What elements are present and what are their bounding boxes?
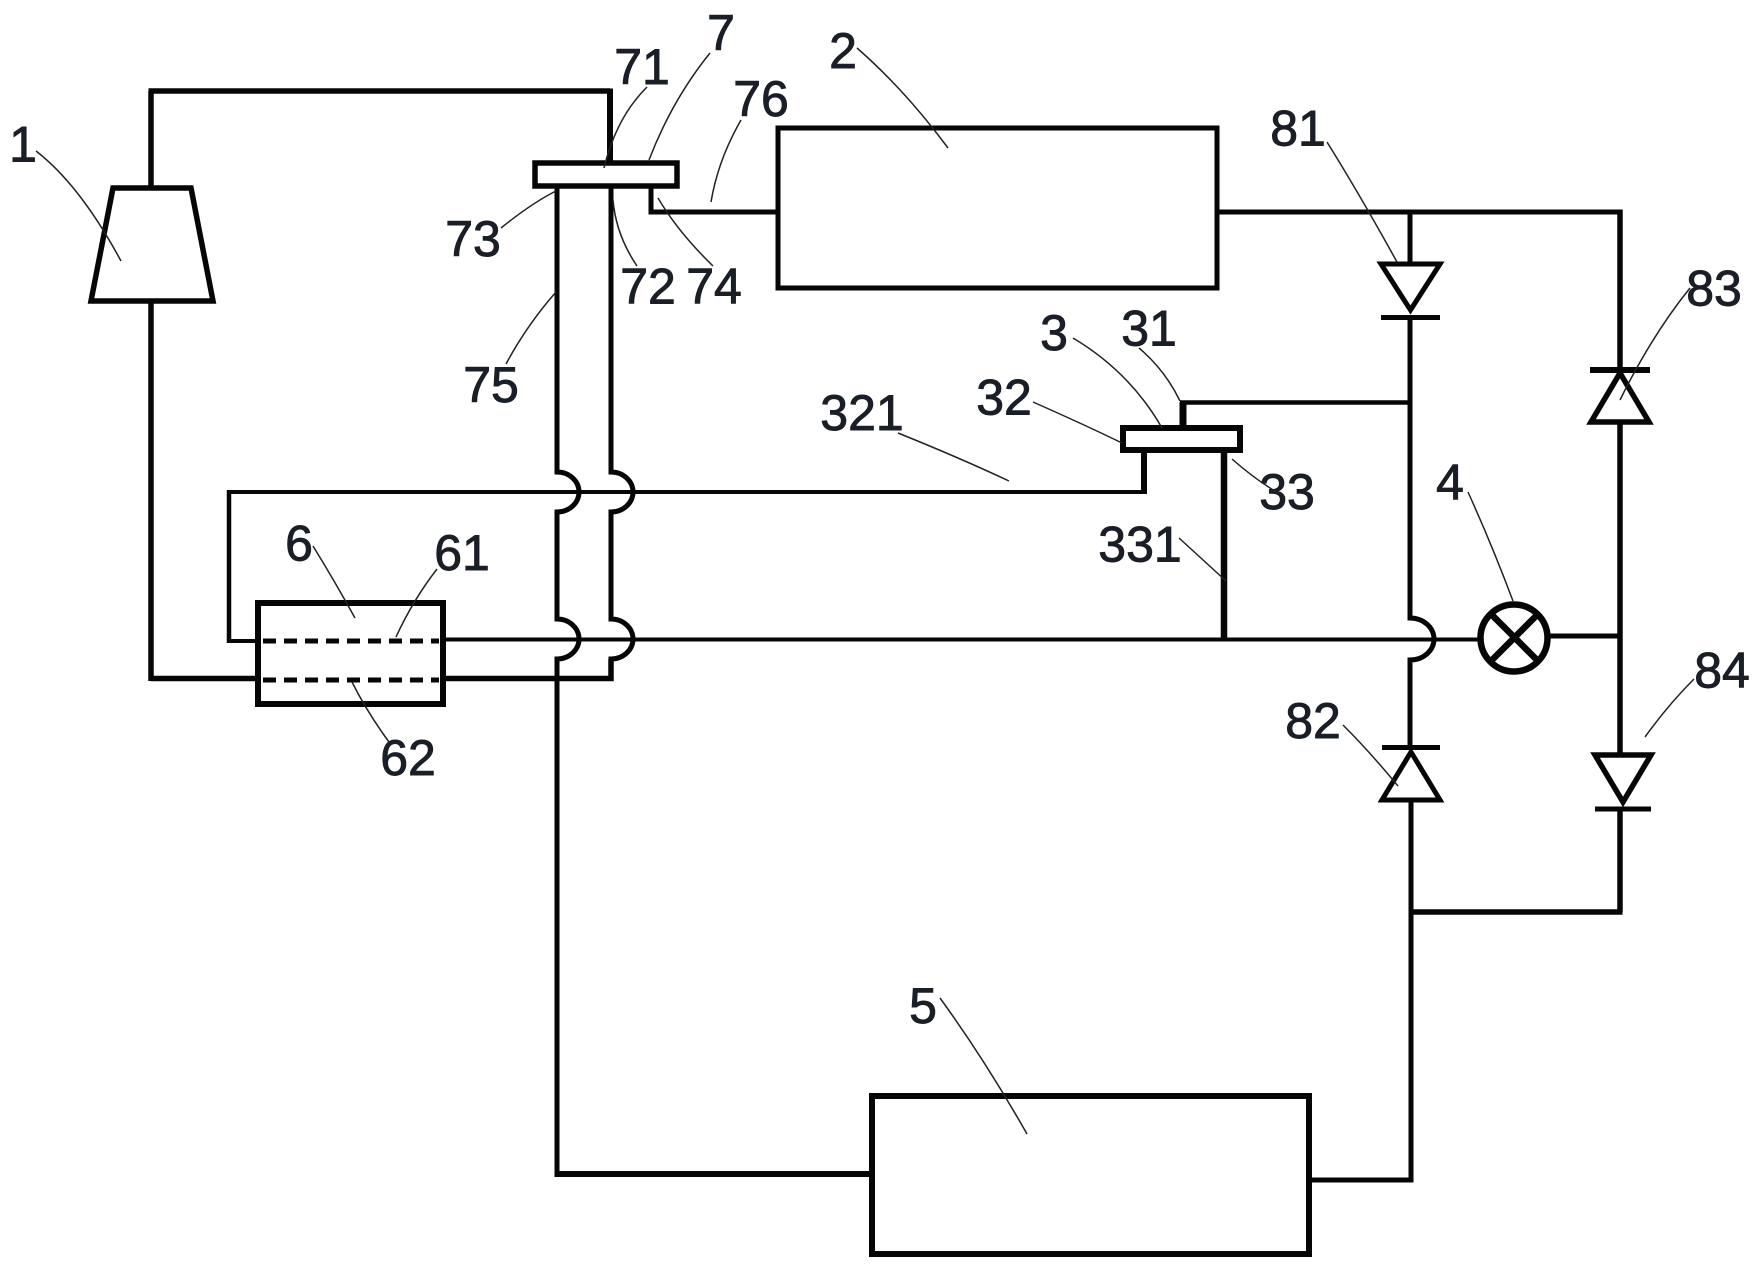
wire 321 U-turn vertical — [227, 490, 232, 643]
component 7 flange bar — [535, 163, 677, 186]
svg-text:4: 4 — [1436, 455, 1464, 511]
wire expansion valve right to column — [1550, 634, 1620, 639]
svg-text:331: 331 — [1098, 517, 1181, 573]
leader 4 — [1468, 492, 1513, 601]
svg-text:84: 84 — [1694, 643, 1750, 699]
leader 331 — [1179, 538, 1226, 581]
wire right column from condenser down — [1617, 210, 1623, 368]
leader 3 — [1073, 338, 1162, 428]
wire stub 76 from flange to condenser — [649, 186, 779, 212]
svg-text:5: 5 — [909, 978, 937, 1034]
leader 71 — [604, 87, 647, 168]
leader 75 — [506, 292, 556, 364]
leader 321 — [898, 433, 1009, 481]
svg-text:73: 73 — [445, 211, 501, 267]
wire valve 84 down to corner — [1411, 809, 1623, 912]
leader 83 — [1620, 288, 1690, 400]
leader 7 — [649, 53, 710, 160]
leader 73 — [501, 191, 556, 228]
svg-text:7: 7 — [707, 5, 735, 61]
wire 61 inner line left segment — [227, 639, 260, 643]
evaporator 5 — [872, 1096, 1309, 1254]
leader 31 — [1139, 348, 1180, 401]
wire valve 82 down to evaporator branch — [1409, 800, 1414, 1183]
heat exchanger 6 body — [258, 603, 443, 704]
svg-text:83: 83 — [1686, 261, 1742, 317]
svg-text:6: 6 — [285, 516, 313, 572]
leader 33 — [1232, 459, 1285, 497]
wire 33 left leg of flange 3 — [1141, 450, 1147, 494]
leader 72 — [613, 200, 637, 266]
svg-text:31: 31 — [1121, 301, 1177, 357]
svg-text:33: 33 — [1259, 464, 1315, 520]
svg-text:32: 32 — [976, 370, 1032, 426]
wire 331 right leg of flange 3 — [1221, 450, 1228, 641]
dashed inner pipe 61 — [263, 639, 439, 644]
leader 61 — [396, 569, 437, 637]
check valve 82 (pointing up) — [1382, 745, 1440, 750]
stub port up from flange 3 — [1180, 402, 1187, 428]
check valve 84 (pointing down) — [1595, 755, 1651, 802]
svg-text:75: 75 — [463, 357, 519, 413]
node T junction at valve 81 branch — [1408, 212, 1413, 264]
leader 32 — [1033, 402, 1122, 443]
svg-text:3: 3 — [1040, 305, 1068, 361]
leader 82 — [1343, 725, 1398, 786]
svg-text:71: 71 — [614, 39, 670, 95]
wire 62 right segment to corner up — [443, 659, 614, 681]
leader 84 — [1645, 679, 1694, 737]
leader 74 — [658, 198, 713, 266]
wire compressor discharge up — [148, 91, 154, 188]
wire component 7 top port down — [607, 89, 613, 166]
wire condenser right to right branch — [1217, 210, 1620, 215]
svg-text:82: 82 — [1285, 693, 1341, 749]
svg-text:61: 61 — [434, 525, 490, 581]
leader 2 — [857, 48, 948, 148]
wire middle long line 61 to expansion valve — [443, 638, 1479, 642]
leader 81 — [1327, 142, 1397, 262]
check valve 81 (pointing down) — [1381, 264, 1440, 310]
condenser 2 — [778, 128, 1217, 288]
wire top horizontal to component 7 — [149, 88, 611, 94]
svg-text:76: 76 — [733, 71, 789, 127]
expansion device 4 (circle with X) — [1481, 605, 1548, 672]
svg-text:74: 74 — [686, 259, 742, 315]
wire evaporator left — [555, 1171, 873, 1177]
svg-text:321: 321 — [820, 385, 903, 441]
svg-text:1: 1 — [9, 117, 37, 173]
leader 1 — [36, 151, 121, 261]
svg-text:62: 62 — [380, 730, 436, 786]
pipe right leg with hops — [611, 186, 633, 681]
svg-text:81: 81 — [1270, 101, 1326, 157]
svg-text:2: 2 — [829, 23, 857, 79]
component 3 flange bar 32 — [1123, 428, 1240, 450]
wire evaporator right — [1309, 1178, 1414, 1183]
svg-text:72: 72 — [620, 259, 676, 315]
wire valve 83 to expansion node — [1617, 422, 1623, 755]
compressor 1 (trapezoid body) — [91, 188, 213, 301]
check valve 83 (pointing up) — [1590, 367, 1650, 373]
leader 5 — [940, 998, 1027, 1134]
leader 76 — [711, 120, 741, 202]
wire 321 horizontal — [227, 490, 1144, 494]
wire 31 to valve branch — [1180, 400, 1412, 405]
wire compressor suction down — [151, 301, 258, 681]
dashed inner pipe 62 — [263, 678, 439, 683]
leader 6 — [313, 546, 355, 618]
leader 62 — [352, 682, 389, 742]
wire valve 81 to node 31 — [1408, 318, 1413, 403]
pipe 75 left leg with hops — [557, 186, 579, 1176]
wire node 31 down with hop over middle line — [1410, 402, 1434, 747]
